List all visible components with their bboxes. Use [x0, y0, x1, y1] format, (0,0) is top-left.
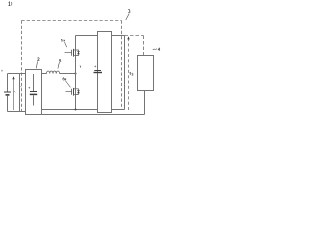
filter capacitor plus mark	[28, 87, 30, 89]
upper MOSFET Q1 gate wire	[65, 52, 72, 54]
label 2 leader	[36, 61, 37, 68]
lower MOSFET Q2 channel bar	[73, 88, 75, 96]
source label tick far left	[1, 70, 2, 72]
wire inductor to switch node	[60, 73, 76, 75]
inverter box (tall rectangle)	[98, 32, 112, 113]
dashed wire to load top vertical	[143, 36, 145, 56]
upper MOSFET Q1 gate bar	[71, 50, 73, 56]
load bottom wire	[144, 91, 146, 115]
junction node dot	[75, 73, 77, 75]
voltage arrow V2 dashed line	[128, 39, 130, 110]
label 3 leader (top right)	[126, 14, 129, 20]
wire filter box to inductor	[42, 73, 47, 75]
filter box (input block)	[26, 70, 42, 115]
dashed enclosure box left edge	[21, 21, 23, 112]
upper FET label leader	[65, 42, 67, 47]
inductor L coil	[47, 71, 60, 74]
bottom return rail main	[42, 114, 145, 116]
right output rail	[124, 36, 126, 110]
voltage arrow V2 head	[127, 36, 129, 39]
upper MOSFET Q1 body diode triangle	[77, 52, 80, 55]
lower MOSFET Q2 body diode loop	[76, 89, 79, 95]
lower MOSFET Q2 gate wire	[66, 91, 72, 93]
battery short plate	[6, 94, 10, 96]
dc link capacitor plus mark	[94, 66, 96, 68]
battery label tick	[14, 91, 15, 92]
lower FET label leader	[65, 81, 70, 88]
filter capacitor stem lower	[33, 95, 35, 105]
dc link capacitor plate upper	[94, 70, 101, 72]
junction dot bottom of leg	[75, 109, 77, 111]
output label	[130, 72, 133, 75]
upper MOSFET Q1 channel bar	[73, 49, 75, 57]
upper MOSFET Q1 body diode cathode bar	[77, 50, 80, 52]
upper FET label	[61, 39, 65, 41]
wire inverter to right rail	[112, 35, 125, 37]
filter capacitor stem upper	[33, 74, 35, 91]
bottom rail filter box to inverter	[42, 109, 98, 111]
inductor label	[59, 59, 61, 61]
voltage arrow V1 head	[12, 76, 14, 79]
bottom rail inverter to right rail	[112, 109, 125, 111]
battery B vertical lead upper	[7, 74, 9, 92]
label 1 (figure reference, top-left)	[9, 2, 11, 6]
load label tilde leader	[153, 49, 157, 51]
label 2	[37, 58, 39, 61]
lower MOSFET Q2 drain/source stubs	[74, 89, 76, 95]
top wire of leg to inverter box	[76, 35, 98, 37]
load label 4	[158, 48, 160, 51]
inductor label leader	[58, 62, 60, 68]
battery long plate	[4, 91, 11, 93]
input top wire from battery to filter box	[8, 73, 26, 75]
battery vertical lead lower	[7, 96, 9, 112]
lower FET label	[63, 78, 66, 80]
filter capacitor plate upper	[30, 91, 37, 93]
voltage arrow V1 line	[13, 79, 15, 110]
filter capacitor plate lower	[30, 93, 37, 95]
terminal label tick	[20, 86, 21, 87]
battery bottom rail	[8, 111, 26, 113]
label 3	[128, 9, 130, 13]
lower MOSFET Q2 body diode cathode bar	[77, 89, 80, 91]
lower MOSFET Q2 body diode triangle	[77, 91, 80, 94]
dashed enclosure box top edge	[22, 20, 122, 22]
switching leg vertical wire	[75, 36, 77, 110]
node label tick right of leg	[80, 66, 81, 68]
dashed enclosure box right edge	[121, 21, 123, 110]
load box	[138, 56, 154, 91]
dc link capacitor plate lower	[94, 72, 103, 74]
lower MOSFET Q2 gate bar	[71, 89, 73, 95]
upper MOSFET Q1 drain/source stubs	[74, 50, 76, 56]
input terminal wire	[19, 74, 21, 112]
upper MOSFET Q1 body diode loop	[76, 50, 79, 56]
dashed wire to load top horizontal	[125, 35, 144, 37]
